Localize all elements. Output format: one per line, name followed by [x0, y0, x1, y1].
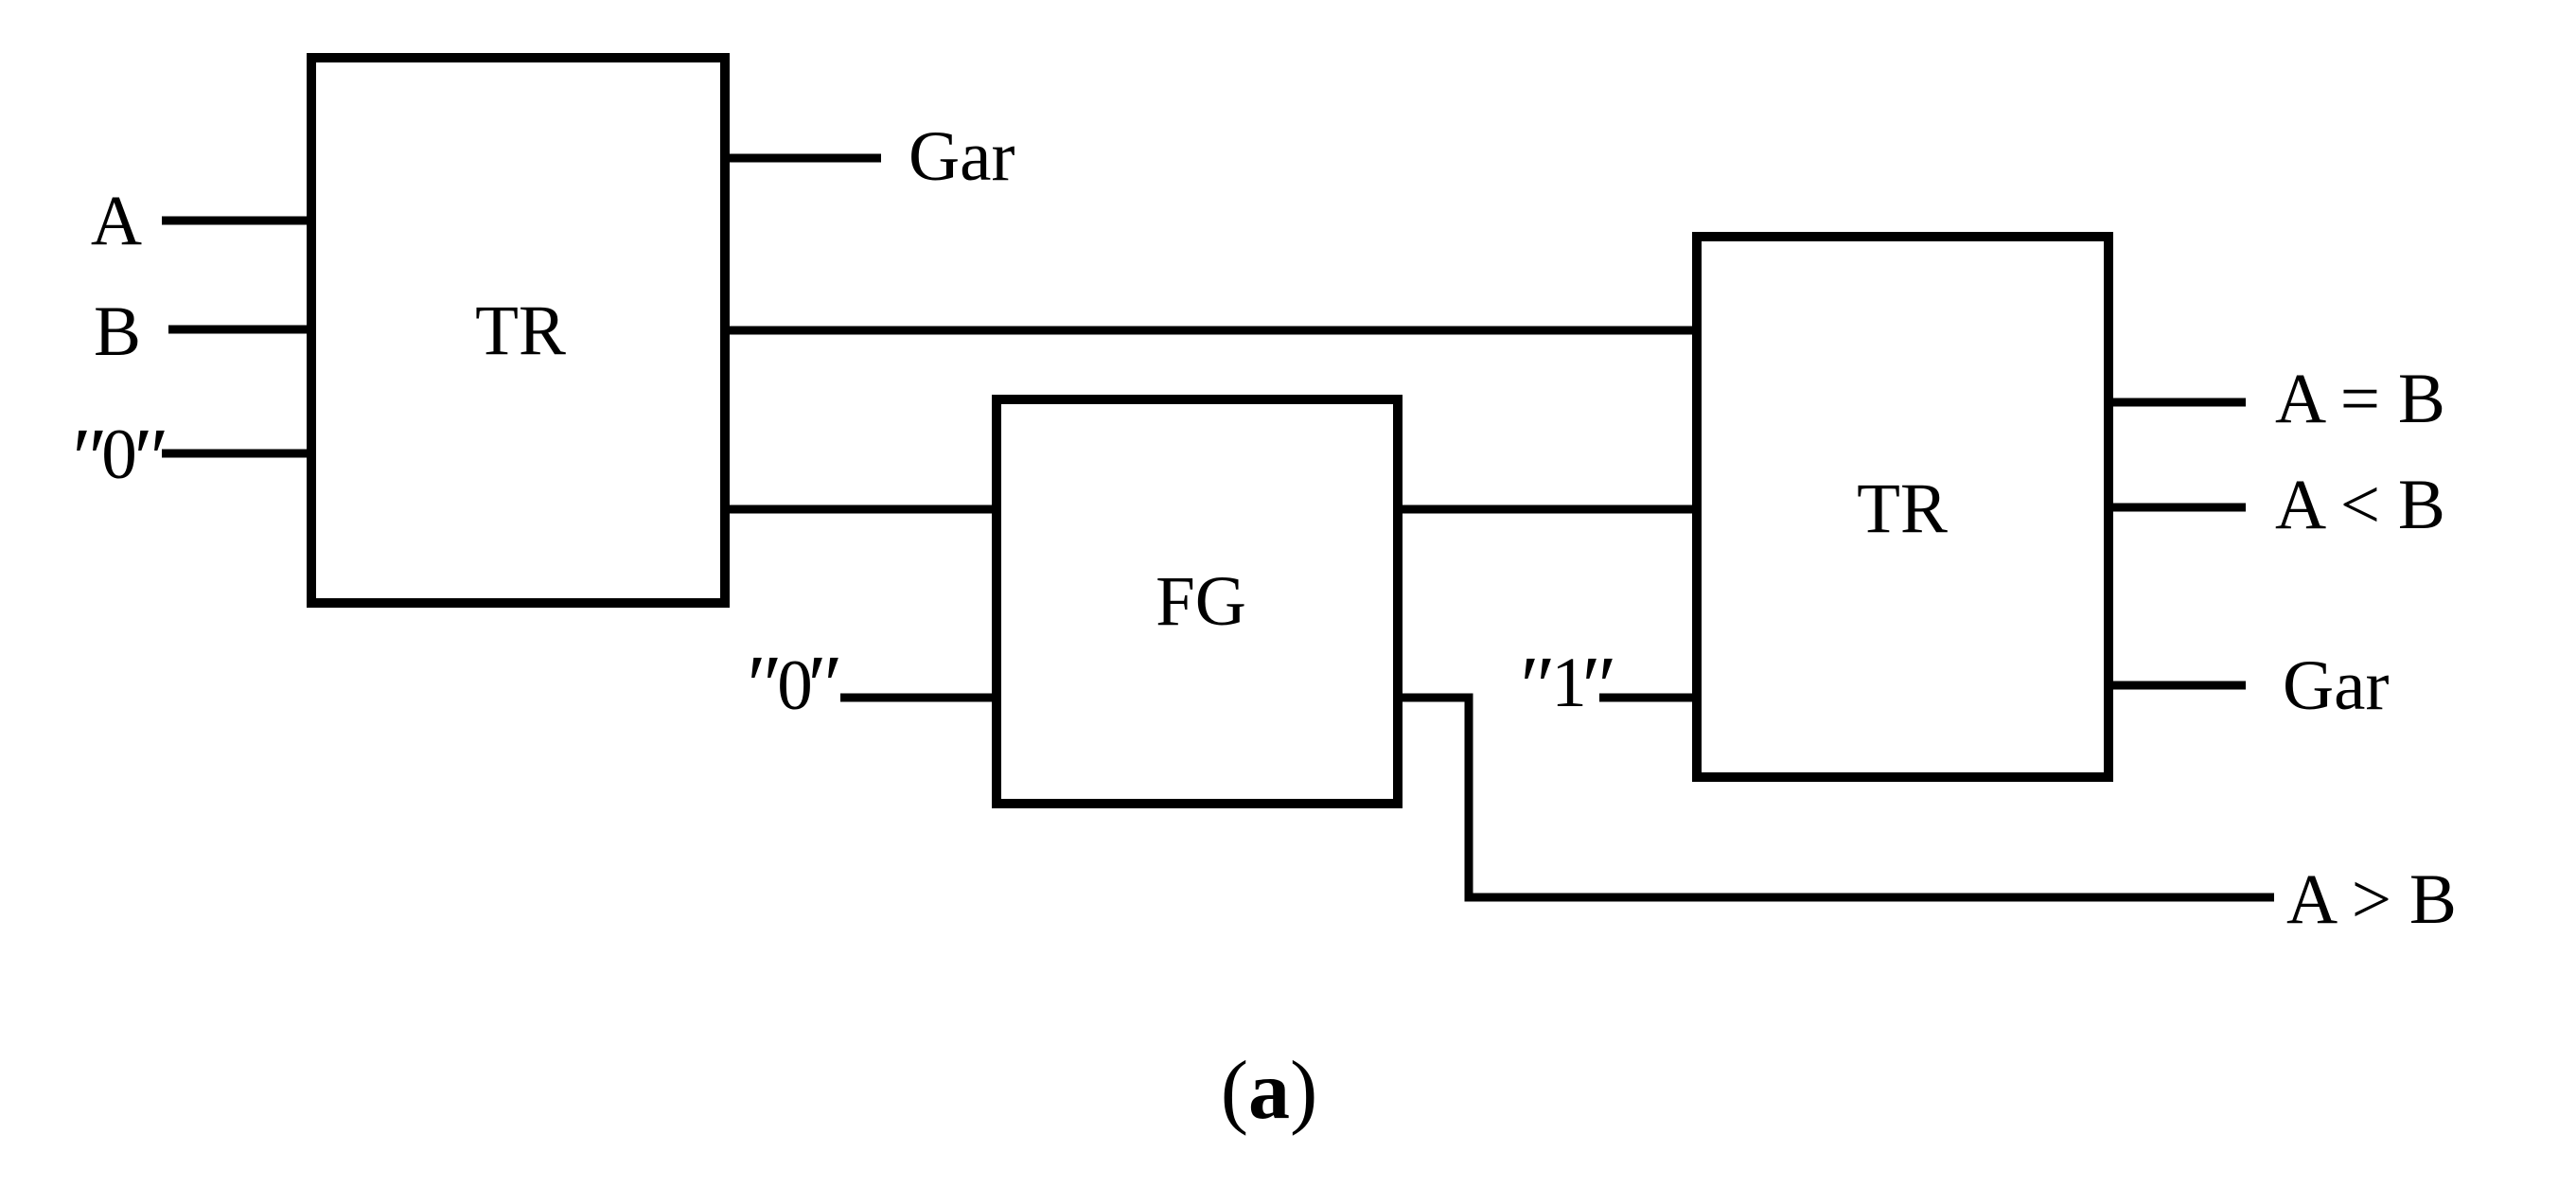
wire input "0" to FG	[840, 694, 996, 702]
svg-text:″: ″	[1581, 640, 1617, 734]
wire input A	[162, 217, 310, 225]
wire input B	[168, 326, 310, 334]
block TR1 (left transfer block)	[311, 58, 725, 603]
svg-text:Gar: Gar	[2283, 646, 2389, 725]
svg-text:(a): (a)	[1221, 1045, 1318, 1137]
svg-text:FG: FG	[1156, 562, 1246, 641]
wire output Gar TR2	[2108, 682, 2246, 690]
svg-text:A = B: A = B	[2275, 360, 2445, 438]
wire input "0" to TR1	[162, 450, 310, 458]
svg-text:Gar: Gar	[909, 117, 1015, 196]
wire output A = B	[2108, 398, 2246, 407]
wire output A &lt; B	[2108, 504, 2246, 512]
svg-text:TR: TR	[475, 292, 566, 370]
svg-text:0: 0	[101, 416, 137, 494]
svg-text:A > B: A > B	[2286, 860, 2457, 939]
wire input "1" to TR2	[1599, 694, 1696, 702]
svg-text:A: A	[91, 182, 142, 260]
block FG (middle block)	[997, 399, 1398, 804]
svg-text:A < B: A < B	[2275, 466, 2445, 544]
svg-text:″: ″	[1520, 640, 1556, 734]
wire TR1 to TR2 (upper carry)	[726, 327, 1696, 335]
wire Gar output of TR1	[726, 154, 881, 163]
wire FG output down to A &gt; B	[1399, 698, 2274, 897]
svg-text:″: ″	[807, 639, 843, 733]
svg-text:B: B	[94, 292, 141, 371]
block TR2 (right transfer block)	[1697, 237, 2108, 777]
wire TR1 to FG	[726, 505, 996, 514]
svg-text:TR: TR	[1857, 469, 1948, 548]
wire FG to TR2	[1399, 505, 1696, 514]
svg-text:″: ″	[133, 412, 169, 505]
